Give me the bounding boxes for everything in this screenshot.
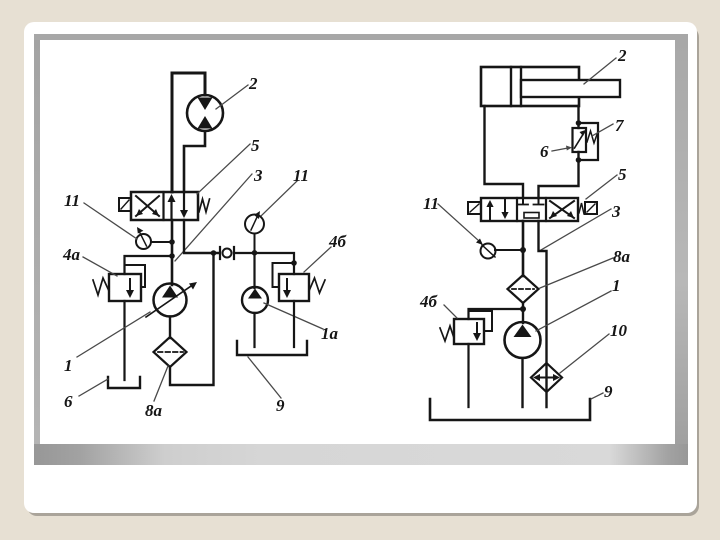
svg-text:5: 5 — [251, 136, 260, 155]
svg-text:4б: 4б — [328, 232, 348, 251]
wire motor loop left leg — [172, 73, 205, 192]
label 3 right — [611, 202, 621, 221]
pressure gauge 11 left — [136, 227, 151, 249]
pressure gauge 11 second — [245, 211, 264, 234]
spring 7 — [587, 131, 598, 143]
svg-text:8а: 8а — [145, 401, 163, 420]
svg-text:9: 9 — [276, 396, 285, 415]
hydraulic motor 2 — [187, 95, 223, 131]
label 4b right — [419, 292, 439, 311]
filter 8a right — [508, 275, 539, 303]
wire valve tank port — [539, 221, 547, 407]
wire 4a to tank — [123, 301, 125, 380]
label 2 right — [617, 46, 627, 65]
label 5 — [251, 136, 260, 155]
svg-text:2: 2 — [248, 74, 258, 93]
wire filter to pump right — [522, 303, 524, 323]
valve crossed arrows cell — [136, 196, 159, 216]
svg-text:4б: 4б — [419, 292, 439, 311]
filter 10 — [531, 363, 562, 392]
label 3 right leader — [541, 209, 611, 250]
wire cylinder left port — [485, 106, 524, 198]
label 3 — [253, 166, 263, 185]
label 5 leader — [197, 144, 250, 194]
svg-text:5: 5 — [618, 165, 627, 184]
label 9 leader — [248, 357, 281, 398]
wire gauge link right — [495, 249, 523, 251]
label 9 left — [276, 396, 285, 415]
label 1 — [64, 356, 73, 375]
node gauge junction — [169, 239, 175, 245]
svg-text:6: 6 — [64, 392, 73, 411]
node relief junction — [169, 253, 175, 259]
label 11 left leader — [84, 203, 137, 239]
label 4b left — [328, 232, 348, 251]
directional valve 5 body — [131, 192, 198, 220]
valve spring right — [199, 199, 210, 212]
label 1a leader — [264, 303, 323, 329]
valve solenoid box left — [119, 198, 131, 211]
svg-text:11: 11 — [423, 194, 439, 213]
wire relief 4b pilot loop — [273, 263, 295, 287]
label 1 right leader — [536, 291, 611, 331]
label 2 — [248, 74, 258, 93]
svg-text:8а: 8а — [613, 247, 631, 266]
wire branch to relief 4b right — [469, 309, 524, 319]
node gauge junction right — [520, 247, 526, 253]
svg-text:9: 9 — [604, 382, 613, 401]
pump 1a — [242, 287, 268, 313]
svg-text:3: 3 — [253, 166, 263, 185]
svg-text:3: 3 — [611, 202, 621, 221]
wire gauge to junction — [254, 234, 256, 254]
label 6 right — [540, 142, 549, 161]
wire valve A to pump — [171, 220, 174, 285]
wire relief 4a top pipe — [125, 256, 173, 274]
wire bypass loop — [579, 123, 599, 160]
pump 1 — [146, 282, 197, 317]
wire pump right to tank — [521, 358, 523, 407]
node relief branch right — [520, 306, 526, 312]
wire cylinder right port — [577, 106, 579, 128]
label 11 right leader — [261, 181, 297, 216]
label 6 leader — [79, 379, 108, 396]
relief valve 4b left circuit — [279, 274, 309, 301]
label 11 right circuit leader — [438, 204, 483, 245]
label 6 — [64, 392, 73, 411]
valve 6 throttle — [573, 128, 587, 152]
filter 8a left — [154, 337, 187, 367]
label 11 right — [293, 166, 309, 185]
label 9 right leader — [591, 393, 603, 399]
label 5 right — [618, 165, 627, 184]
label 8a right — [613, 247, 631, 266]
cylinder rod — [521, 80, 620, 97]
wire valve B to check valve — [184, 220, 219, 253]
node bypass top — [576, 120, 582, 126]
svg-text:1а: 1а — [321, 324, 339, 343]
wire relief 4b right pilot loop — [469, 311, 493, 331]
relief valve 4b right — [454, 319, 484, 344]
wire valve to filter main — [522, 221, 525, 276]
directional valve right body — [481, 198, 578, 221]
label 10 — [610, 321, 628, 340]
wire pump 1a to tank 9 — [253, 313, 255, 347]
wire check valve to relief 4b — [234, 253, 294, 274]
label 5 right leader — [586, 175, 617, 199]
label 4b right leader — [444, 305, 457, 318]
wire 4b right to tank — [467, 344, 469, 407]
cylinder 2 body — [481, 67, 579, 106]
wire 4b to tank 9 — [293, 301, 295, 347]
label 8a right leader — [540, 258, 613, 288]
label 9 right — [604, 382, 613, 401]
wire relief 4a pilot loop — [125, 265, 146, 287]
svg-text:11: 11 — [293, 166, 309, 185]
label 2 leader — [216, 85, 248, 109]
svg-text:11: 11 — [64, 191, 80, 210]
relief valve 4a — [109, 274, 141, 301]
node relief 4b pilot junction — [291, 260, 297, 266]
picture frame gray border — [34, 34, 688, 465]
wire gauge link — [151, 241, 172, 243]
label 1 leader — [77, 312, 150, 357]
tank 6 — [108, 377, 140, 388]
valve straight arrows cell — [168, 194, 189, 218]
label 7 — [615, 116, 625, 135]
wire right port to valve — [539, 152, 579, 198]
svg-text:6: 6 — [540, 142, 549, 161]
label 1a — [321, 324, 339, 343]
label 2 right leader — [584, 58, 616, 84]
right valve closed center cell — [518, 198, 544, 218]
label 11 right circuit — [423, 194, 439, 213]
label 4a — [62, 245, 81, 264]
right valve solenoid left — [468, 202, 481, 214]
label 4b left leader — [304, 247, 331, 272]
right valve crossed arrows cell — [550, 201, 574, 218]
svg-text:1: 1 — [612, 276, 621, 295]
spring of 4b right — [440, 326, 454, 341]
check valve — [220, 247, 234, 259]
spring of 4b left circuit — [309, 278, 325, 293]
node bypass bottom — [576, 157, 582, 163]
pressure gauge 11 right circuit — [481, 244, 496, 259]
right valve parallel arrows cell — [486, 200, 508, 219]
svg-text:1: 1 — [64, 356, 73, 375]
label 10 leader — [560, 334, 609, 373]
spring of 4a — [93, 278, 109, 295]
label 6 right leader — [552, 146, 572, 152]
wire junction to pump 1a — [253, 253, 255, 288]
label 3 leader — [175, 174, 252, 261]
wire filter return loop — [170, 253, 214, 385]
pump 1 right — [505, 322, 541, 358]
svg-text:4а: 4а — [62, 245, 81, 264]
label 11 left — [64, 191, 80, 210]
tank 9 right — [430, 399, 590, 420]
wire pump to filter — [169, 317, 171, 339]
label 8a leader — [154, 366, 168, 401]
svg-text:2: 2 — [617, 46, 627, 65]
label 1 right — [612, 276, 621, 295]
label 4a leader — [83, 257, 117, 276]
wire motor bottom to valve — [184, 131, 205, 192]
right valve solenoid right — [579, 202, 597, 214]
tank 9 left — [237, 341, 307, 355]
node gauge-pump junction — [252, 250, 258, 256]
svg-text:10: 10 — [610, 321, 628, 340]
label 8a left — [145, 401, 163, 420]
label 7 leader — [592, 124, 613, 136]
node check valve junction — [211, 250, 217, 256]
